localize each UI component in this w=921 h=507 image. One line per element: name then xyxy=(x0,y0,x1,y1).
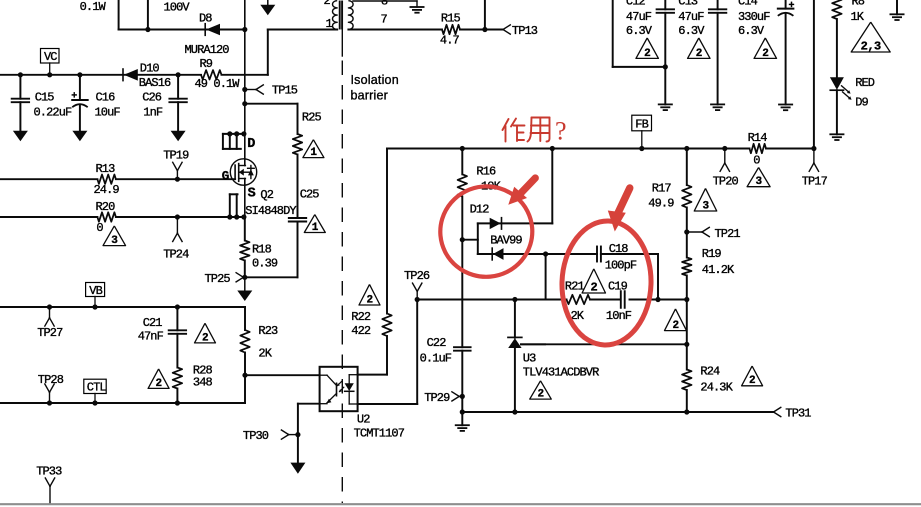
svg-text:R15: R15 xyxy=(441,12,461,26)
triangle note 2,3 at R8 xyxy=(851,22,890,52)
node VC stem xyxy=(47,72,52,77)
resistor R24 24.3K xyxy=(684,342,689,347)
wire TP25 row to C25 xyxy=(245,276,298,278)
node D12 lower to divider xyxy=(543,251,548,256)
wire opto collector row xyxy=(242,373,247,378)
ground D9 xyxy=(830,133,843,135)
svg-text:0: 0 xyxy=(753,154,760,168)
svg-text:C21: C21 xyxy=(143,316,163,330)
wire snubber row to D8 anode node xyxy=(119,29,245,31)
triangle note 2 at C14 xyxy=(754,38,777,58)
resistor R17 49.9 xyxy=(684,146,689,151)
svg-text:2: 2 xyxy=(156,378,162,390)
svg-text:TP31: TP31 xyxy=(785,407,811,421)
capacitor C15 0.22uF xyxy=(18,72,23,77)
svg-text:barrier: barrier xyxy=(351,89,389,103)
wire snubber branch left vertical xyxy=(118,0,120,30)
svg-text:Q2: Q2 xyxy=(260,188,273,202)
net label CTL xyxy=(84,379,106,393)
power arrow TP30 net xyxy=(290,463,305,474)
wire R15 to TP13 xyxy=(460,29,503,31)
svg-text:1nF: 1nF xyxy=(143,106,163,120)
svg-text:D12: D12 xyxy=(470,203,490,217)
svg-text:TP30: TP30 xyxy=(243,429,269,443)
wire D12 cathode up to FB xyxy=(551,149,553,224)
svg-text:2,3: 2,3 xyxy=(861,39,881,53)
svg-text:0.1uF: 0.1uF xyxy=(420,352,452,366)
testpoint TP17 xyxy=(811,146,816,151)
node C18/C19 junction xyxy=(655,297,660,302)
svg-text:R8: R8 xyxy=(852,0,865,9)
svg-text:2: 2 xyxy=(749,375,755,387)
svg-text:U2: U2 xyxy=(357,413,370,427)
svg-text:TCMT1107: TCMT1107 xyxy=(354,427,405,441)
shunt regulator U3 TLV431ACDBVR xyxy=(512,297,517,302)
svg-text:49 0.1W: 49 0.1W xyxy=(195,77,241,91)
svg-text:VC: VC xyxy=(44,50,57,64)
wire R20 source row xyxy=(0,216,97,218)
svg-text:Isolation: Isolation xyxy=(351,73,399,87)
capacitor C18 100pF xyxy=(546,253,597,255)
svg-text:2: 2 xyxy=(672,320,678,332)
capacitor C25 xyxy=(297,155,299,219)
svg-text:D9: D9 xyxy=(855,96,868,110)
ground pin 8 xyxy=(416,1,418,7)
power label VB xyxy=(86,283,105,297)
wire feedback FB row xyxy=(387,148,750,150)
triangle note 3 at R14 xyxy=(747,168,770,187)
transformer T primary winding xyxy=(333,1,338,30)
svg-text:330uF: 330uF xyxy=(738,10,770,24)
svg-text:TP15: TP15 xyxy=(272,84,298,98)
power arrow down (primary net) xyxy=(267,0,269,5)
net label FB xyxy=(632,115,652,131)
svg-text:0: 0 xyxy=(96,221,103,235)
node C22 to ground rail xyxy=(460,409,465,414)
svg-text:0.22uF: 0.22uF xyxy=(34,106,73,120)
wire stub to D12 xyxy=(462,239,478,241)
svg-text:D10: D10 xyxy=(140,62,160,76)
svg-text:2: 2 xyxy=(324,0,331,8)
capacitor C16 10uF polarized xyxy=(77,72,82,77)
svg-text:R13: R13 xyxy=(96,162,116,176)
svg-text:R18: R18 xyxy=(252,243,272,257)
diode D8 MURA120 xyxy=(206,24,220,36)
svg-text:24.9: 24.9 xyxy=(94,183,120,197)
svg-text:R17: R17 xyxy=(652,182,672,196)
svg-text:U3: U3 xyxy=(523,352,536,366)
wire TLV431 ref row xyxy=(521,343,687,345)
ground arrow C15 xyxy=(19,130,21,132)
svg-text:R23: R23 xyxy=(258,324,278,338)
svg-text:TP29: TP29 xyxy=(424,391,450,405)
svg-text:+: + xyxy=(789,1,795,12)
svg-text:1: 1 xyxy=(312,222,319,234)
red annotation circle around C18 C19 R21 xyxy=(560,219,653,346)
capacitor C26 1nF xyxy=(176,72,181,77)
svg-text:+: + xyxy=(71,92,77,103)
isolation barrier dashed line xyxy=(341,14,343,56)
capacitor C22 0.1uF xyxy=(461,300,463,348)
wire snubber cap branch vertical xyxy=(147,0,149,30)
node snubber junction xyxy=(145,27,150,32)
svg-text:C15: C15 xyxy=(35,91,55,105)
wire C18 right leg down xyxy=(657,254,659,300)
svg-text:FB: FB xyxy=(635,118,648,132)
power label VC xyxy=(41,49,60,64)
svg-text:TP33: TP33 xyxy=(36,465,62,479)
triangle note 2 at C12 xyxy=(636,38,659,58)
svg-text:2: 2 xyxy=(762,48,768,60)
red annotation text yong (CJK) xyxy=(528,118,550,142)
red annotation text zuo (CJK) xyxy=(503,119,525,142)
triangle note 2 at C21 xyxy=(195,323,216,343)
svg-text:348: 348 xyxy=(193,376,213,390)
svg-text:TP28: TP28 xyxy=(38,373,64,387)
wire D12 lower branch down xyxy=(545,254,547,300)
svg-text:2: 2 xyxy=(696,48,702,60)
svg-text:2: 2 xyxy=(202,332,208,344)
svg-text:TP27: TP27 xyxy=(37,326,63,340)
svg-text:SI4848DY: SI4848DY xyxy=(245,204,296,218)
svg-text:TP17: TP17 xyxy=(802,175,828,189)
wire main drain rail vertical xyxy=(244,0,246,159)
svg-text:3: 3 xyxy=(702,200,709,212)
wire pin 8 to ground xyxy=(353,0,417,2)
svg-text:47nF: 47nF xyxy=(138,330,164,344)
dual diode D12 BAV99 xyxy=(477,223,479,254)
svg-text:R16: R16 xyxy=(476,165,496,179)
svg-text:R9: R9 xyxy=(200,57,213,71)
node compensation to divider xyxy=(684,297,689,302)
svg-text:C26: C26 xyxy=(142,91,162,105)
capacitor C13 47uF 6.3V xyxy=(717,0,719,9)
wire CTL rail xyxy=(0,402,245,404)
svg-text:BAS16: BAS16 xyxy=(139,76,171,90)
wire opto bottom-left to TP30 xyxy=(298,403,320,405)
svg-text:R24: R24 xyxy=(700,365,720,379)
svg-text:6.3V: 6.3V xyxy=(626,24,653,38)
wire R22 from FB corner xyxy=(386,149,388,314)
wire secondary row xyxy=(348,29,442,31)
capacitor C21 47nF xyxy=(175,304,180,309)
ground C22 xyxy=(461,412,463,425)
transformer T secondary winding xyxy=(348,1,353,30)
svg-text:47uF: 47uF xyxy=(678,10,704,24)
wire secondary ground rail xyxy=(462,411,773,413)
svg-text:?: ? xyxy=(555,117,567,146)
svg-text:TP20: TP20 xyxy=(713,175,739,189)
wire R9 to bypass corner xyxy=(222,74,268,76)
svg-text:TP24: TP24 xyxy=(163,248,189,262)
ground top right xyxy=(896,0,898,14)
svg-text:BAV99: BAV99 xyxy=(490,234,522,248)
triangle note 2 at R28 xyxy=(148,369,169,389)
resistor R28 348 xyxy=(173,368,182,389)
svg-text:C22: C22 xyxy=(427,336,447,350)
svg-text:R19: R19 xyxy=(702,247,722,261)
svg-text:49.9: 49.9 xyxy=(648,197,674,211)
svg-text:24.3K: 24.3K xyxy=(700,381,733,395)
svg-text:R14: R14 xyxy=(748,131,768,145)
power arrow TP25 node xyxy=(244,277,246,290)
svg-text:TP21: TP21 xyxy=(715,227,741,241)
resistor R9 49 0.1W xyxy=(201,70,222,79)
resistor R13 24.9 xyxy=(97,175,116,184)
diode D10 BAS16 xyxy=(124,69,138,81)
wire TP15 row to R25 xyxy=(242,101,247,106)
capacitor C14 330uF 6.3V polarized xyxy=(785,0,787,9)
svg-text:TP25: TP25 xyxy=(205,272,231,286)
capacitor C12 47uF 6.3V xyxy=(612,0,614,67)
transformer core xyxy=(339,2,341,29)
capacitor C19 10nF xyxy=(620,291,622,308)
wire R13 gate row xyxy=(0,178,97,180)
svg-text:TP26: TP26 xyxy=(404,269,430,283)
testpoint TP13 xyxy=(503,25,510,30)
ground C14 xyxy=(779,104,792,106)
svg-text:10uF: 10uF xyxy=(95,106,121,120)
svg-text:1: 1 xyxy=(326,17,333,31)
optocoupler U2 TCMT1107 xyxy=(320,367,358,411)
MOSFET Q2 SI4848DY xyxy=(230,159,256,185)
node R16 to D12 xyxy=(460,237,465,242)
ground arrow C16 xyxy=(79,130,81,132)
MOSFET Q2 drain pins comb xyxy=(223,133,245,135)
red annotation arrow upper xyxy=(508,187,527,205)
svg-text:6.3V: 6.3V xyxy=(738,24,765,38)
ground C12 xyxy=(659,103,672,105)
testpoint TP31 xyxy=(774,407,781,412)
svg-text:MURA120: MURA120 xyxy=(185,43,230,57)
wire opto bottom-right to TP26 leg xyxy=(358,403,418,405)
svg-text:2: 2 xyxy=(644,48,650,60)
svg-text:6.3V: 6.3V xyxy=(678,24,705,38)
wire VB rail xyxy=(0,306,245,308)
wire R9 bypass vertical xyxy=(267,30,269,75)
svg-text:C19: C19 xyxy=(608,280,628,294)
svg-text:7: 7 xyxy=(381,13,388,27)
testpoint TP24 xyxy=(175,214,180,219)
svg-text:R22: R22 xyxy=(351,310,371,324)
svg-text:TP13: TP13 xyxy=(512,24,538,38)
svg-text:R20: R20 xyxy=(96,200,116,214)
resistor R20 0 xyxy=(97,212,116,221)
svg-text:0.39: 0.39 xyxy=(252,257,278,271)
wire compensation row xyxy=(417,299,566,301)
red annotation arrow lower xyxy=(608,211,626,232)
triangle note 2 at R22 xyxy=(359,284,380,305)
svg-text:100pF: 100pF xyxy=(605,259,637,273)
svg-text:2: 2 xyxy=(366,294,372,306)
ground arrow C26 xyxy=(177,130,179,132)
testpoint TP21 xyxy=(684,229,689,234)
svg-text:422: 422 xyxy=(351,324,371,338)
resistor R25 xyxy=(297,104,299,134)
triangle note 2 at C13 xyxy=(688,38,711,58)
svg-text:R21: R21 xyxy=(565,280,585,294)
wire R22 to opto pin xyxy=(358,374,387,376)
testpoint TP15 xyxy=(242,87,247,92)
wire secondary rail up xyxy=(484,0,486,30)
resistor R19 41.2K xyxy=(686,232,688,258)
svg-text:S: S xyxy=(248,187,256,202)
wire output rail vertical xyxy=(813,0,815,149)
node D8 to drain rail xyxy=(242,27,247,32)
svg-text:R25: R25 xyxy=(302,111,322,125)
svg-text:C13: C13 xyxy=(678,0,698,9)
triangle note 1 at C25 xyxy=(304,215,325,233)
resistor R23 2K xyxy=(240,330,249,353)
testpoint TP27 xyxy=(47,304,52,309)
svg-text:2: 2 xyxy=(537,389,543,401)
triangle note 3 at R17 xyxy=(694,188,717,211)
svg-text:41.2K: 41.2K xyxy=(702,263,735,277)
svg-text:C25: C25 xyxy=(300,188,320,202)
svg-text:2: 2 xyxy=(590,280,597,294)
resistor R16 10K xyxy=(460,146,465,151)
svg-text:4.7: 4.7 xyxy=(440,34,460,48)
svg-text:C16: C16 xyxy=(96,91,116,105)
triangle note 1 at R25 xyxy=(303,140,324,158)
LED D9 RED xyxy=(830,77,844,90)
svg-text:10nF: 10nF xyxy=(606,309,632,323)
svg-text:RED: RED xyxy=(855,76,875,90)
svg-text:3: 3 xyxy=(111,235,118,247)
svg-text:D: D xyxy=(247,137,255,152)
wire VB rail corner down / R23 top xyxy=(244,307,246,330)
svg-text:D8: D8 xyxy=(199,12,212,26)
svg-text:100V: 100V xyxy=(164,1,191,15)
node TP13 xyxy=(482,27,487,32)
resistor R21 2K xyxy=(567,295,591,304)
triangle note 2 at R21 xyxy=(582,269,605,293)
svg-text:VB: VB xyxy=(89,284,102,298)
wire transformer pin1 row xyxy=(268,29,337,31)
MOSFET Q2 source pins comb xyxy=(230,193,238,195)
triangle note 2 right of C19 xyxy=(665,309,687,331)
svg-text:G: G xyxy=(222,170,230,184)
resistor R15 4.7 xyxy=(442,25,460,34)
wire R16 node down to C22 xyxy=(461,240,463,300)
sheet border bottom xyxy=(0,503,921,505)
resistor R22 422 xyxy=(382,314,391,337)
resistor R8 1K xyxy=(832,0,841,19)
svg-text:1K: 1K xyxy=(851,10,865,24)
svg-text:47uF: 47uF xyxy=(626,10,652,24)
svg-text:C14: C14 xyxy=(738,0,758,9)
testpoint TP19 xyxy=(175,177,180,182)
svg-text:TLV431ACDBVR: TLV431ACDBVR xyxy=(523,366,599,380)
triangle note 3 at R20 xyxy=(103,226,126,246)
resistor R14 0 xyxy=(750,144,767,153)
triangle note 2 at U3 xyxy=(530,381,552,399)
svg-text:C12: C12 xyxy=(626,0,646,9)
svg-text:CTL: CTL xyxy=(87,381,107,395)
svg-text:0.1W: 0.1W xyxy=(80,0,107,14)
testpoint TP20 xyxy=(722,146,727,151)
red annotation circle around D12 xyxy=(437,183,537,281)
svg-text:2K: 2K xyxy=(258,347,272,361)
triangle note 2 at R24 xyxy=(742,366,763,386)
ground C13 xyxy=(711,103,724,105)
svg-text:1: 1 xyxy=(310,147,317,159)
svg-text:TP19: TP19 xyxy=(163,149,189,163)
svg-text:C18: C18 xyxy=(609,242,629,256)
wire R23 node down to CTL rail xyxy=(244,375,246,403)
testpoint TP25 xyxy=(242,275,247,280)
resistor R18 0.39 xyxy=(244,217,246,241)
svg-text:3: 3 xyxy=(756,176,763,188)
wire VC rail xyxy=(0,74,201,76)
